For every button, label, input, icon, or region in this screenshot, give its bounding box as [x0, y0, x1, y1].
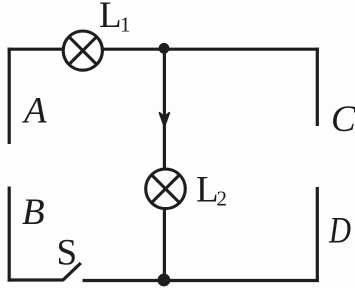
svg-text:L: L [99, 0, 122, 36]
wire bottom left (to switch) [8, 278, 64, 281]
switch S blade [63, 263, 81, 280]
svg-text:2: 2 [217, 187, 228, 211]
svg-text:D: D [328, 211, 351, 252]
wire top side [8, 48, 319, 51]
svg-text:S: S [57, 233, 78, 274]
svg-text:A: A [21, 91, 47, 132]
lamp L2 [146, 169, 186, 209]
lamp L1 [63, 31, 102, 70]
label L1 [99, 0, 131, 37]
wire right side segment C [316, 48, 319, 126]
svg-text:1: 1 [120, 13, 131, 37]
svg-text:B: B [22, 192, 45, 233]
svg-text:C: C [331, 99, 355, 140]
junction node bottom [158, 274, 171, 287]
svg-text:L: L [196, 170, 219, 211]
label L2 [196, 170, 227, 211]
wire middle branch [163, 48, 166, 280]
current direction arrow [160, 113, 170, 127]
junction node top [159, 43, 170, 54]
wire bottom right (switch to right corner) [83, 279, 319, 282]
wire left side segment B [8, 187, 11, 282]
wire left side segment A [8, 48, 11, 144]
wire right side segment D [316, 187, 319, 282]
